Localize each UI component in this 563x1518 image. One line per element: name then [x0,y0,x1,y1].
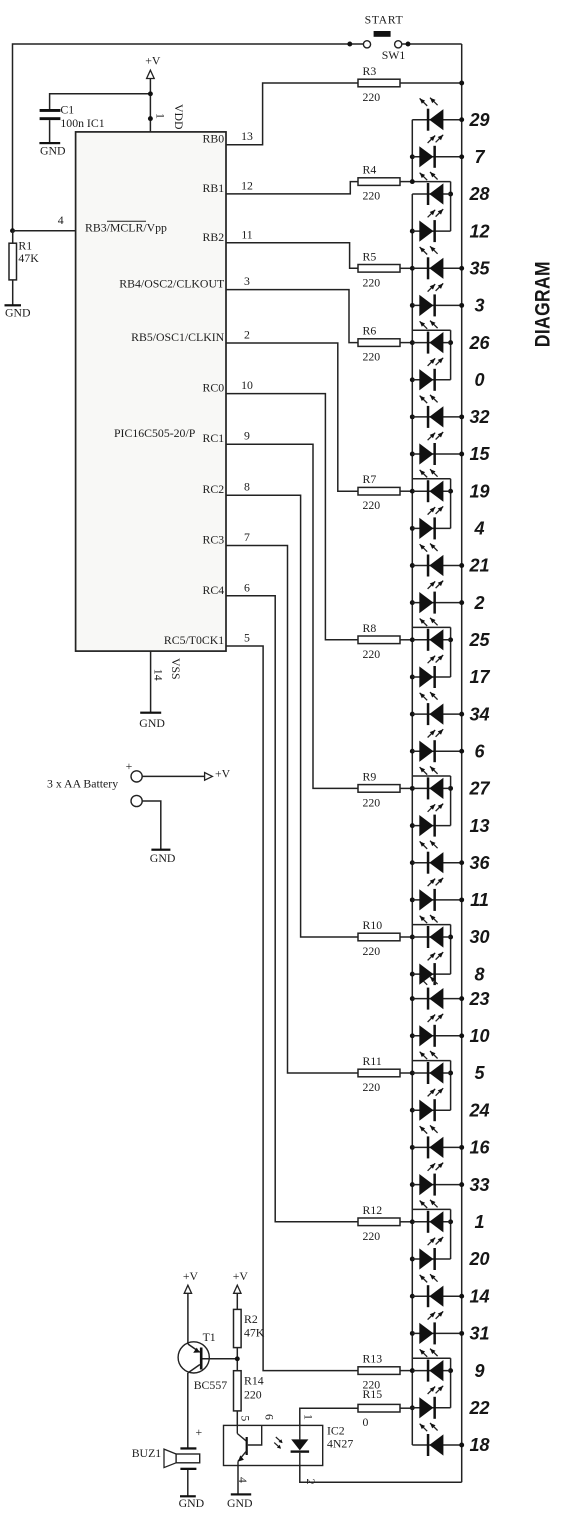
svg-text:2: 2 [244,328,250,342]
svg-text:35: 35 [469,259,490,279]
junction bus row 23 [459,996,464,1001]
junction VDD rail [148,91,153,96]
junction left line row 25 [410,637,415,642]
svg-text:R2: R2 [244,1312,258,1326]
wire IC2 pin 1 to R15 [300,1408,358,1425]
resistor R9 [358,785,400,793]
svg-text:RB5/OSC1/CLKIN: RB5/OSC1/CLKIN [131,330,225,344]
wire pin 4 to MCLR [13,230,76,232]
junction left line row 20 [410,1257,415,1262]
svg-text:R7: R7 [363,472,377,486]
svg-text:17: 17 [469,667,490,687]
junction bus row 6 [459,749,464,754]
switch SW1 [363,31,401,48]
svg-text:1: 1 [474,1212,484,1232]
resistor R11 [358,1069,400,1077]
wire R8 right lead [400,639,412,641]
LED 2 [412,581,461,614]
junction left line row 17 [410,675,415,680]
junction pin4 node [10,228,15,233]
ground battery [150,849,176,865]
junction left line row 36 [410,860,415,865]
svg-text:14: 14 [151,669,165,681]
pin RB3/MCLR/Vpp label [85,221,167,235]
junction switch left terminal [347,42,352,47]
wire inner loop vertical LED9/LED22 [450,1358,452,1408]
svg-text:220: 220 [363,944,381,958]
svg-text:PIC16C505-20/P: PIC16C505-20/P [114,426,196,440]
LED 0 [412,358,450,391]
LED 13 [412,804,450,837]
wire inner loop vertical LED26/LED0 [450,330,452,380]
wire inner loop vertical LED27/LED13 [450,776,452,826]
LED 26 [412,321,450,354]
svg-text:GND: GND [150,851,176,865]
wire R5 right lead [400,267,412,269]
svg-text:10: 10 [469,1026,489,1046]
LED 17 [412,655,450,688]
opto LED arrows [274,1437,282,1449]
LED 23 [412,977,461,1010]
junction left line row 11 [410,897,415,902]
LED 29 [412,98,461,131]
junction inner loop LED27 [448,786,453,791]
wire RB1 pin12 to R4 [226,182,358,194]
svg-text:13: 13 [241,129,253,143]
svg-text:R13: R13 [363,1352,383,1366]
junction inner loop LED1 [448,1219,453,1224]
junction left line row 5 [410,1071,415,1076]
junction bus row 36 [459,860,464,865]
wire +V to chip VDD pin 1 [149,79,151,132]
svg-text:RB2: RB2 [203,230,225,244]
ground R1 [5,304,32,320]
junction R3 bus [459,81,464,86]
svg-text:RB0: RB0 [203,132,225,146]
junction left line row 19 [410,489,415,494]
svg-text:5: 5 [239,1415,253,1421]
wire RB0 pin13 to R3 [226,83,358,145]
LED 7 [412,135,461,168]
power +V top [145,54,161,79]
junction bus row 16 [459,1145,464,1150]
LED 25 [412,618,450,651]
svg-text:8: 8 [244,480,250,494]
bus wire right vertical [461,44,463,1482]
junction left line row 2 [410,600,415,605]
svg-text:BC557: BC557 [194,1378,228,1392]
svg-text:11: 11 [241,227,252,241]
LED 18 [412,1423,461,1456]
junction switch right terminal [406,42,411,47]
wire inner loop vertical LED28/LED12 [450,182,452,232]
capacitor C1 [40,109,61,120]
svg-text:3: 3 [474,296,484,316]
svg-text:22: 22 [468,1398,489,1418]
wire bridge pair LED9/LED22 [412,1357,450,1359]
wire RB4 pin3 to R6 [226,290,358,343]
junction left line row 21 [410,563,415,568]
LED 24 [412,1088,450,1121]
svg-text:26: 26 [468,333,490,353]
wire C1 top to VDD rail [50,94,151,109]
svg-text:RC2: RC2 [203,482,225,496]
wire inner loop vertical LED1/LED20 [450,1209,452,1259]
wire R12 right lead [400,1221,412,1223]
wire R15 right lead [400,1407,412,1409]
resistor R10 [358,933,400,941]
junction bus row 33 [459,1182,464,1187]
svg-text:R10: R10 [363,918,383,932]
svg-text:47K: 47K [244,1326,265,1340]
power +V R2 [233,1269,249,1293]
svg-text:6: 6 [244,580,250,594]
svg-text:GND: GND [5,306,31,320]
svg-text:25: 25 [468,630,490,650]
junction left line row 24 [410,1108,415,1113]
junction left line row 12 [410,229,415,234]
resistor R14 [234,1371,242,1411]
wire R2 to base node [236,1348,238,1371]
junction left line row 32 [410,414,415,419]
junction left line row 31 [410,1331,415,1336]
svg-text:START: START [365,13,404,27]
svg-text:4N27: 4N27 [327,1437,353,1451]
wire T1 collector to buzzer [187,1373,189,1448]
wire +V to R2 [236,1293,238,1309]
LED 35 [412,246,461,279]
resistor R5 [358,265,400,273]
wire VSS pin 14 to ground [150,651,152,712]
resistor R7 [358,487,400,495]
power +V T1 [183,1269,199,1293]
svg-text:5: 5 [244,631,250,645]
svg-text:21: 21 [468,556,489,576]
battery negative terminal [131,795,142,806]
wire IC2 pin 2 to bus [300,1466,462,1483]
svg-text:220: 220 [363,647,381,661]
LED 36 [412,841,461,874]
junction left line row 10 [410,1033,415,1038]
wire +V to T1 emitter [187,1293,189,1344]
resistor R13 [358,1367,400,1375]
svg-text:220: 220 [363,189,381,203]
junction R4 node [410,179,415,184]
svg-text:1: 1 [302,1414,316,1420]
junction left line row 4 [410,526,415,531]
junction bus row 10 [459,1033,464,1038]
svg-text:R12: R12 [363,1203,383,1217]
junction inner loop LED30 [448,935,453,940]
svg-text:7: 7 [244,530,250,544]
svg-text:3: 3 [244,274,250,288]
svg-text:+V: +V [145,54,161,68]
resistor R6 [358,339,400,347]
wire R14 to IC2 pin 5 [236,1411,238,1426]
wire RB2 pin11 to R5 [226,243,358,268]
svg-text:IC2: IC2 [327,1424,345,1438]
junction left line row 27 [410,786,415,791]
resistor R3 [358,79,400,87]
ground IC2 [227,1493,253,1510]
op-amp U1 PIC16C505 IC1 body [76,132,226,651]
wire RC0 pin10 to R8 [226,394,358,640]
resistor R8 [358,636,400,644]
wire R3 right lead [400,82,462,84]
wire LED column left line upper [411,120,413,182]
junction bus row 18 [459,1443,464,1448]
wire inner loop vertical LED5/LED24 [450,1061,452,1111]
svg-text:C1: C1 [60,103,74,117]
LED 34 [412,692,461,725]
wire bridge pair LED30/LED8 [412,924,450,926]
opto LED IC2 [291,1425,310,1465]
svg-text:R3: R3 [363,64,377,78]
svg-text:4: 4 [473,519,484,539]
junction left line row 22 [410,1405,415,1410]
wire bridge pair LED1/LED20 [412,1208,450,1210]
LED 33 [412,1163,461,1196]
svg-text:GND: GND [179,1496,205,1510]
svg-text:23: 23 [468,989,489,1009]
wire R1 to ground [12,280,14,305]
junction bus row 29 [459,117,464,122]
LED 6 [412,729,461,762]
svg-text:30: 30 [469,927,489,947]
LED 32 [412,395,461,428]
svg-text:11: 11 [470,890,489,910]
resistor R12 [358,1218,400,1226]
svg-text:14: 14 [469,1286,489,1306]
svg-text:SW1: SW1 [382,48,406,62]
svg-text:220: 220 [244,1388,262,1402]
svg-text:33: 33 [469,1175,489,1195]
wire RC5 pin5 to R13 [226,646,358,1371]
svg-text:RC1: RC1 [203,431,225,445]
LED 8 [412,952,450,985]
wire LED column left line lower [411,194,413,1445]
junction left line row 9 [410,1368,415,1373]
junction left line row 1 [410,1219,415,1224]
LED 16 [412,1125,461,1158]
svg-text:2: 2 [473,593,484,613]
svg-text:0: 0 [363,1415,369,1429]
svg-text:+V: +V [233,1269,249,1283]
resistor R4 [358,178,400,186]
svg-text:RC4: RC4 [203,583,225,597]
wire R9 right lead [400,787,412,789]
resistor R2 [234,1309,242,1347]
svg-text:R5: R5 [363,249,377,263]
svg-text:29: 29 [468,110,489,130]
svg-text:9: 9 [474,1361,484,1381]
junction bus row 32 [459,414,464,419]
junction left line row 26 [410,340,415,345]
wire RC4 pin6 to R12 [226,596,358,1222]
svg-text:RB4/OSC2/CLKOUT: RB4/OSC2/CLKOUT [119,277,225,291]
wire +V rail top left segment [13,44,364,231]
svg-text:5: 5 [474,1063,485,1083]
LED 19 [412,469,450,502]
optocoupler IC2 4N27 body [224,1425,323,1465]
ground VSS [139,712,165,730]
svg-text:6: 6 [262,1414,276,1420]
svg-text:R4: R4 [363,163,377,177]
junction left line row 23 [410,996,415,1001]
power +V battery [205,766,231,780]
svg-text:36: 36 [469,853,490,873]
LED 30 [412,915,450,948]
LED 28 [412,172,450,205]
LED 1 [412,1200,450,1233]
svg-text:+: + [126,759,133,773]
svg-text:7: 7 [474,147,485,167]
wire inner loop vertical LED30/LED8 [450,925,452,975]
wire +V rail top right segment to bus [402,43,462,45]
wire R7 right lead [400,490,412,492]
resistor R1 [9,243,17,280]
svg-text:4: 4 [58,213,64,227]
svg-text:1: 1 [153,113,167,119]
svg-text:9: 9 [244,429,250,443]
wire battery+ to +V arrow [142,775,205,777]
svg-text:220: 220 [363,90,381,104]
resistor R15 [358,1404,400,1412]
junction base node [235,1356,240,1361]
svg-text:+: + [195,1425,202,1439]
wire R6 right lead [400,342,412,344]
LED 11 [412,878,461,911]
wire R10 right lead [400,936,412,938]
wire inner loop vertical LED19/LED4 [450,479,452,529]
svg-text:2: 2 [304,1479,318,1485]
svg-text:220: 220 [363,1080,381,1094]
svg-text:R15: R15 [363,1387,383,1401]
svg-text:RC3: RC3 [203,533,225,547]
junction left line row 33 [410,1182,415,1187]
svg-text:R14: R14 [244,1374,264,1388]
svg-text:GND: GND [227,1496,253,1510]
LED 20 [412,1237,450,1270]
wire R4 right lead [400,181,412,183]
svg-text:RC5/T0CK1: RC5/T0CK1 [164,633,224,647]
wire bridge pair LED27/LED13 [412,775,450,777]
svg-text:RB1: RB1 [203,181,225,195]
svg-text:220: 220 [363,275,381,289]
junction bus row 3 [459,303,464,308]
transistor Q1 T1 BC557 [178,1342,209,1373]
svg-text:18: 18 [469,1435,489,1455]
svg-text:VSS: VSS [169,658,183,680]
svg-text:220: 220 [363,1229,381,1243]
svg-text:15: 15 [469,444,490,464]
svg-text:R6: R6 [363,324,377,338]
svg-text:31: 31 [469,1324,489,1344]
wire RC2 pin8 to R10 [226,495,358,937]
junction bus row 34 [459,712,464,717]
svg-text:R11: R11 [363,1054,382,1068]
svg-text:27: 27 [468,779,490,799]
junction left line row 15 [410,452,415,457]
junction left line row 13 [410,823,415,828]
svg-text:12: 12 [241,178,253,192]
junction inner loop LED9 [448,1368,453,1373]
wire bridge pair LED26/LED0 [412,329,450,331]
LED 15 [412,432,461,465]
svg-text:6: 6 [474,742,485,762]
wire R13 right lead [400,1370,412,1372]
svg-text:GND: GND [40,144,66,158]
svg-text:24: 24 [468,1100,489,1120]
svg-text:R8: R8 [363,621,377,635]
svg-text:10: 10 [241,378,253,392]
LED 22 [412,1386,450,1419]
junction bus row 21 [459,563,464,568]
svg-text:RB3/MCLR/Vpp: RB3/MCLR/Vpp [85,221,167,235]
junction bus row 7 [459,154,464,159]
svg-text:220: 220 [363,350,381,364]
wire bridge pair LED5/LED24 [412,1060,450,1062]
svg-text:16: 16 [469,1138,490,1158]
svg-text:32: 32 [469,407,489,427]
svg-text:3 x AA Battery: 3 x AA Battery [47,777,118,791]
junction inner loop LED25 [448,637,453,642]
junction left line row 14 [410,1294,415,1299]
wire T1 base to R2/R14 node [203,1358,238,1360]
LED 3 [412,283,461,316]
svg-text:100n IC1: 100n IC1 [60,116,104,130]
svg-text:12: 12 [469,221,489,241]
junction left line row 6 [410,749,415,754]
svg-text:0: 0 [474,370,484,390]
wire buzzer to ground [187,1470,189,1496]
junction left line row 7 [410,154,415,159]
junction bus row 35 [459,266,464,271]
junction inner loop LED28 [448,192,453,197]
LED 14 [412,1274,461,1307]
wire to R1 [12,231,14,244]
wire RB5 pin2 to R7 [226,343,358,491]
junction pin 1 [148,116,153,121]
junction inner loop LED19 [448,489,453,494]
wire C1 bottom to ground [49,120,51,143]
wire bridge pair LED25/LED17 [412,626,450,628]
LED 10 [412,1014,461,1047]
wire bridge pair LED28/LED12 [412,181,450,183]
svg-text:220: 220 [363,498,381,512]
battery 3xAA positive terminal [126,759,143,782]
buzzer BUZ1 [164,1447,200,1470]
svg-text:+V: +V [183,1269,199,1283]
phototransistor IC2 [237,1425,261,1465]
svg-text:8: 8 [474,964,484,984]
svg-text:13: 13 [469,816,489,836]
svg-text:R9: R9 [363,769,377,783]
junction left line row 16 [410,1145,415,1150]
svg-text:RC0: RC0 [203,381,225,395]
junction bus row 31 [459,1331,464,1336]
svg-text:19: 19 [469,481,489,501]
junction left line row 3 [410,303,415,308]
LED 27 [412,766,450,799]
wire inner loop vertical LED25/LED17 [450,627,452,677]
svg-text:VDD: VDD [172,104,186,130]
junction bus row 11 [459,897,464,902]
junction left line row 35 [410,266,415,271]
svg-text:20: 20 [468,1249,489,1269]
junction inner loop LED26 [448,340,453,345]
junction bus row 15 [459,452,464,457]
